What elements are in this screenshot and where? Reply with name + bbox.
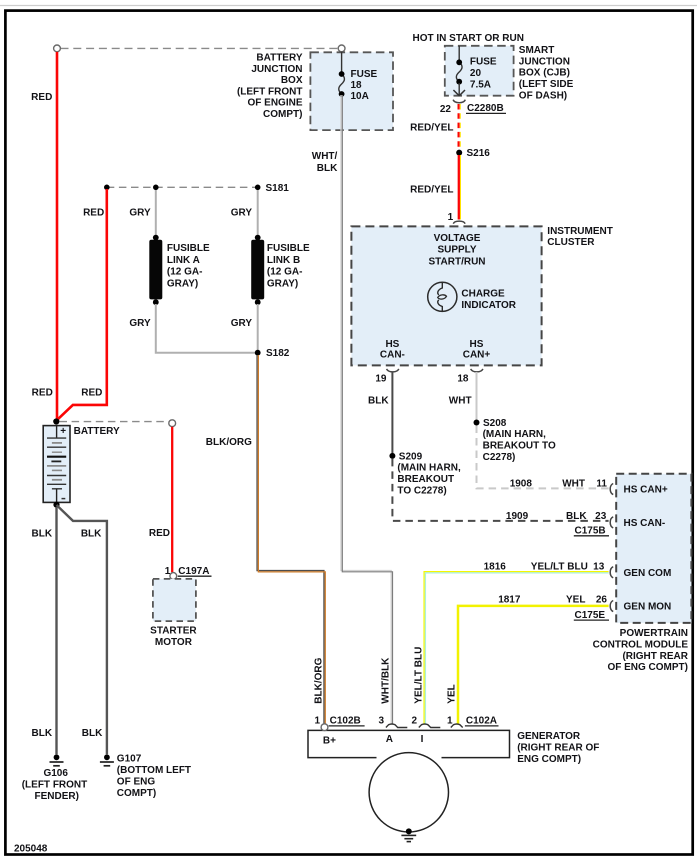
node: BJB feed (open circle) <box>338 45 345 52</box>
svg-text:BREAKOUT TO: BREAKOUT TO <box>483 441 556 452</box>
svg-text:CLUSTER: CLUSTER <box>547 237 595 248</box>
svg-text:10A: 10A <box>351 91 369 102</box>
svg-text:RED/YEL: RED/YEL <box>410 185 453 196</box>
svg-text:(LEFT FRONT: (LEFT FRONT <box>22 779 88 790</box>
wire: dashed bus at S181 <box>107 186 258 188</box>
svg-text:INDICATOR: INDICATOR <box>461 300 516 311</box>
svg-text:205048: 205048 <box>14 844 48 855</box>
svg-text:26: 26 <box>596 595 608 606</box>
svg-text:GRY: GRY <box>231 318 253 329</box>
connector pin 18 (HS CAN+) <box>457 369 483 385</box>
svg-text:COMPT): COMPT) <box>263 109 302 120</box>
svg-text:HS: HS <box>470 339 484 350</box>
svg-text:BLK: BLK <box>368 396 389 407</box>
wire YEL: generator to PCM GEN MON / connector C175E <box>447 595 609 724</box>
svg-text:BOX: BOX <box>281 75 303 86</box>
connector pin 2 (I) <box>411 716 440 728</box>
connector C2280B pin 22 <box>440 100 506 115</box>
splice S216 <box>456 148 490 159</box>
svg-text:S182: S182 <box>266 348 290 359</box>
powertrain control module (box) <box>593 474 692 673</box>
svg-text:22: 22 <box>440 104 452 115</box>
node: battery feed (open circle, top-left) <box>54 45 61 52</box>
svg-text:1909: 1909 <box>506 511 529 522</box>
svg-text:C175E: C175E <box>575 610 606 621</box>
svg-text:JUNCTION: JUNCTION <box>251 64 302 75</box>
svg-text:C102A: C102A <box>466 716 497 727</box>
svg-text:18: 18 <box>351 80 363 91</box>
svg-text:HS CAN-: HS CAN- <box>624 518 666 529</box>
wire BLK: cluster pin 19 to S209 <box>368 372 392 453</box>
connector pin 3 (A) <box>378 716 407 728</box>
svg-text:C2278): C2278) <box>483 452 516 463</box>
wire GRY: S181 to fusible link B <box>231 190 258 236</box>
svg-text:1816: 1816 <box>484 561 507 572</box>
wire RED/YEL: S216 to instrument cluster pin 1 <box>410 155 460 220</box>
svg-text:WHT: WHT <box>562 478 585 489</box>
smart junction box CJB (box) <box>413 33 574 101</box>
svg-text:BREAKOUT: BREAKOUT <box>397 474 454 485</box>
svg-text:(MAIN HARN,: (MAIN HARN, <box>483 429 547 440</box>
svg-text:(RIGHT REAR OF: (RIGHT REAR OF <box>517 743 599 754</box>
svg-text:B+: B+ <box>323 736 336 747</box>
svg-text:HS: HS <box>385 339 399 350</box>
svg-text:G106: G106 <box>43 768 68 779</box>
wire labels: circuit 1908 WHT 11 <box>510 478 608 489</box>
svg-text:3: 3 <box>378 716 384 727</box>
wire WHT: S208 to PCM pin 11 (dashed) <box>477 426 609 489</box>
svg-text:BLK: BLK <box>32 528 53 539</box>
svg-text:GRAY): GRAY) <box>167 279 198 290</box>
svg-text:YEL/LT BLU: YEL/LT BLU <box>414 647 425 704</box>
splice S208 <box>474 418 556 463</box>
svg-text:INSTRUMENT: INSTRUMENT <box>547 226 613 237</box>
svg-text:YEL: YEL <box>447 684 458 703</box>
svg-text:A: A <box>386 734 393 745</box>
svg-text:S216: S216 <box>467 148 491 159</box>
connector pin 23 arc (PCM) <box>610 517 613 528</box>
svg-text:HS CAN+: HS CAN+ <box>624 485 668 496</box>
svg-text:S181: S181 <box>266 183 290 194</box>
svg-text:BLK/ORG: BLK/ORG <box>314 657 325 703</box>
svg-text:ENG COMPT): ENG COMPT) <box>517 754 581 765</box>
svg-text:OF ENG COMPT): OF ENG COMPT) <box>607 662 688 673</box>
svg-text:1908: 1908 <box>510 478 533 489</box>
connector pin 19 (HS CAN-) <box>375 369 398 385</box>
ground: generator case <box>401 828 416 841</box>
svg-text:OF ENGINE: OF ENGINE <box>247 98 302 109</box>
svg-text:SUPPLY: SUPPLY <box>437 245 476 256</box>
svg-text:(LEFT FRONT: (LEFT FRONT <box>237 86 303 97</box>
svg-text:FUSE: FUSE <box>351 69 378 80</box>
svg-text:HOT IN START OR RUN: HOT IN START OR RUN <box>413 33 524 44</box>
svg-text:COMPT): COMPT) <box>117 788 156 799</box>
node: starter feed (open circle) <box>169 420 176 427</box>
svg-text:+: + <box>60 426 66 437</box>
svg-text:CAN-: CAN- <box>380 349 405 360</box>
wire: dashed battery bus (top) <box>61 47 339 49</box>
svg-text:FENDER): FENDER) <box>34 791 78 802</box>
svg-text:(12 GA-: (12 GA- <box>267 267 303 278</box>
wire RED: battery bus node to battery positive (left) <box>31 52 57 420</box>
svg-text:BOX (CJB): BOX (CJB) <box>519 68 570 79</box>
wire YEL/LT BLU: generator pin I to PCM GEN COM <box>414 561 609 724</box>
connector pin 26 arc (PCM) <box>610 601 613 612</box>
wire BLK/ORG: S182 to generator B+ <box>206 355 325 724</box>
battery <box>43 418 120 502</box>
svg-text:RED: RED <box>32 387 53 398</box>
wire WHT: cluster pin 18 to S208 <box>449 372 477 420</box>
svg-text:GRY: GRY <box>129 318 151 329</box>
svg-text:C2280B: C2280B <box>467 103 504 114</box>
svg-text:WHT: WHT <box>449 396 472 407</box>
svg-text:(MAIN HARN,: (MAIN HARN, <box>397 463 461 474</box>
svg-text:OF ENG: OF ENG <box>117 777 156 788</box>
connector pin 13 arc (PCM) <box>610 567 613 578</box>
svg-text:2: 2 <box>411 716 417 727</box>
svg-text:OF DASH): OF DASH) <box>519 90 567 101</box>
svg-text:BLK: BLK <box>566 511 587 522</box>
splice S209 <box>389 451 461 496</box>
fusible link B (12 GA-GRAY) <box>251 235 310 305</box>
wire: dashed battery to starter feed <box>60 421 169 423</box>
svg-text:RED: RED <box>81 387 102 398</box>
svg-text:FUSE: FUSE <box>470 56 497 67</box>
svg-text:S208: S208 <box>483 418 507 429</box>
svg-text:11: 11 <box>596 478 607 489</box>
svg-text:GRY: GRY <box>129 207 151 218</box>
svg-text:BATTERY: BATTERY <box>74 426 120 437</box>
svg-text:I: I <box>421 734 424 745</box>
ground G106 <box>22 754 88 801</box>
svg-text:23: 23 <box>595 511 607 522</box>
svg-text:1817: 1817 <box>498 595 521 606</box>
wire RED/YEL: fuse 20 to S216 (dashed) <box>410 104 460 150</box>
svg-text:GENERATOR: GENERATOR <box>517 731 581 742</box>
fusible link A (12 GA-GRAY) <box>149 235 210 305</box>
svg-text:GRY: GRY <box>231 207 253 218</box>
svg-text:1: 1 <box>314 716 320 727</box>
svg-text:G107: G107 <box>117 754 142 765</box>
svg-text:FUSIBLE: FUSIBLE <box>267 243 310 254</box>
ground G107 <box>100 754 191 800</box>
svg-text:TO C2278): TO C2278) <box>397 485 446 496</box>
svg-text:C175B: C175B <box>575 526 606 537</box>
svg-text:(LEFT SIDE: (LEFT SIDE <box>519 79 574 90</box>
wire BLK: battery negative to G106 <box>32 502 60 755</box>
connector C197A pin 1 (open circle) <box>165 566 212 579</box>
svg-text:CONTROL MODULE: CONTROL MODULE <box>593 640 689 651</box>
battery junction box (box) <box>237 52 393 130</box>
svg-text:BLK: BLK <box>32 728 53 739</box>
svg-text:START/RUN: START/RUN <box>428 256 485 267</box>
svg-text:7.5A: 7.5A <box>470 79 491 90</box>
starter motor (box) <box>150 579 197 648</box>
svg-text:GRAY): GRAY) <box>267 279 298 290</box>
connector pin 1 (instrument cluster) <box>448 212 465 224</box>
splice S181 <box>104 183 289 194</box>
connector C102A pin 1 <box>447 716 499 728</box>
svg-text:RED: RED <box>31 92 52 103</box>
svg-text:BLK/ORG: BLK/ORG <box>206 437 252 448</box>
splice S182 <box>255 348 290 359</box>
svg-text:LINK B: LINK B <box>267 255 300 266</box>
wire GRY: link B to S182 <box>231 304 258 350</box>
wire WHT/BLK: BJB fuse 18 to generator pin A <box>312 95 393 724</box>
fuse F20 7.5A (in CJB) <box>453 46 497 96</box>
svg-text:(12 GA-: (12 GA- <box>167 267 203 278</box>
svg-text:1: 1 <box>448 212 454 223</box>
svg-text:YEL: YEL <box>566 595 585 606</box>
svg-text:SMART: SMART <box>519 45 555 56</box>
svg-text:GEN COM: GEN COM <box>624 568 672 579</box>
svg-text:RED: RED <box>83 207 104 218</box>
svg-text:STARTER: STARTER <box>150 626 197 637</box>
svg-text:POWERTRAIN: POWERTRAIN <box>620 628 688 639</box>
generator (box + machine circle) <box>308 730 599 832</box>
wire RED: starter feed to starter motor <box>149 427 172 573</box>
svg-text:C197A: C197A <box>178 566 209 577</box>
wire GRY: link A to S182 <box>129 304 255 353</box>
wire BLK: S209 to PCM pin 23 (dashed) <box>392 459 608 521</box>
svg-text:S209: S209 <box>399 451 423 462</box>
svg-text:BATTERY: BATTERY <box>256 53 302 64</box>
svg-text:VOLTAGE: VOLTAGE <box>434 233 481 244</box>
svg-text:WHT/: WHT/ <box>312 151 338 162</box>
svg-text:13: 13 <box>593 561 605 572</box>
svg-text:RED: RED <box>149 528 170 539</box>
svg-text:BLK: BLK <box>317 163 338 174</box>
svg-text:RED/YEL: RED/YEL <box>410 123 453 134</box>
wire BLK: battery negative to G107 <box>57 505 107 754</box>
svg-text:20: 20 <box>470 68 482 79</box>
svg-text:CHARGE: CHARGE <box>461 289 505 300</box>
svg-text:LINK A: LINK A <box>167 255 200 266</box>
svg-text:(RIGHT REAR: (RIGHT REAR <box>622 651 688 662</box>
wire labels: circuit 1909 BLK 23 / connector C175B <box>506 511 609 537</box>
svg-text:(BOTTOM LEFT: (BOTTOM LEFT <box>117 765 191 776</box>
svg-text:FUSIBLE: FUSIBLE <box>167 243 210 254</box>
connector pin 11 arc (PCM) <box>610 484 613 495</box>
svg-text:19: 19 <box>375 374 387 385</box>
fuse F18 10A (in BJB) <box>339 52 378 102</box>
instrument cluster (box) <box>351 226 612 366</box>
svg-text:CAN+: CAN+ <box>463 349 491 360</box>
wire RED: S181 to battery positive <box>56 189 107 421</box>
svg-text:WHT/BLK: WHT/BLK <box>381 657 392 704</box>
svg-text:1: 1 <box>165 566 171 577</box>
connector C102B pin 1 (B+, open circle) <box>314 716 364 731</box>
svg-text:JUNCTION: JUNCTION <box>519 56 570 67</box>
charge indicator lamp <box>428 282 517 311</box>
svg-text:BLK: BLK <box>82 728 103 739</box>
svg-text:BLK: BLK <box>81 528 102 539</box>
svg-text:1: 1 <box>447 716 453 727</box>
svg-text:18: 18 <box>457 374 469 385</box>
svg-text:YEL/LT BLU: YEL/LT BLU <box>531 561 588 572</box>
svg-text:GEN MON: GEN MON <box>624 602 672 613</box>
svg-text:MOTOR: MOTOR <box>155 637 193 648</box>
wire GRY: S181 to fusible link A <box>129 190 155 236</box>
svg-text:C102B: C102B <box>330 716 361 727</box>
